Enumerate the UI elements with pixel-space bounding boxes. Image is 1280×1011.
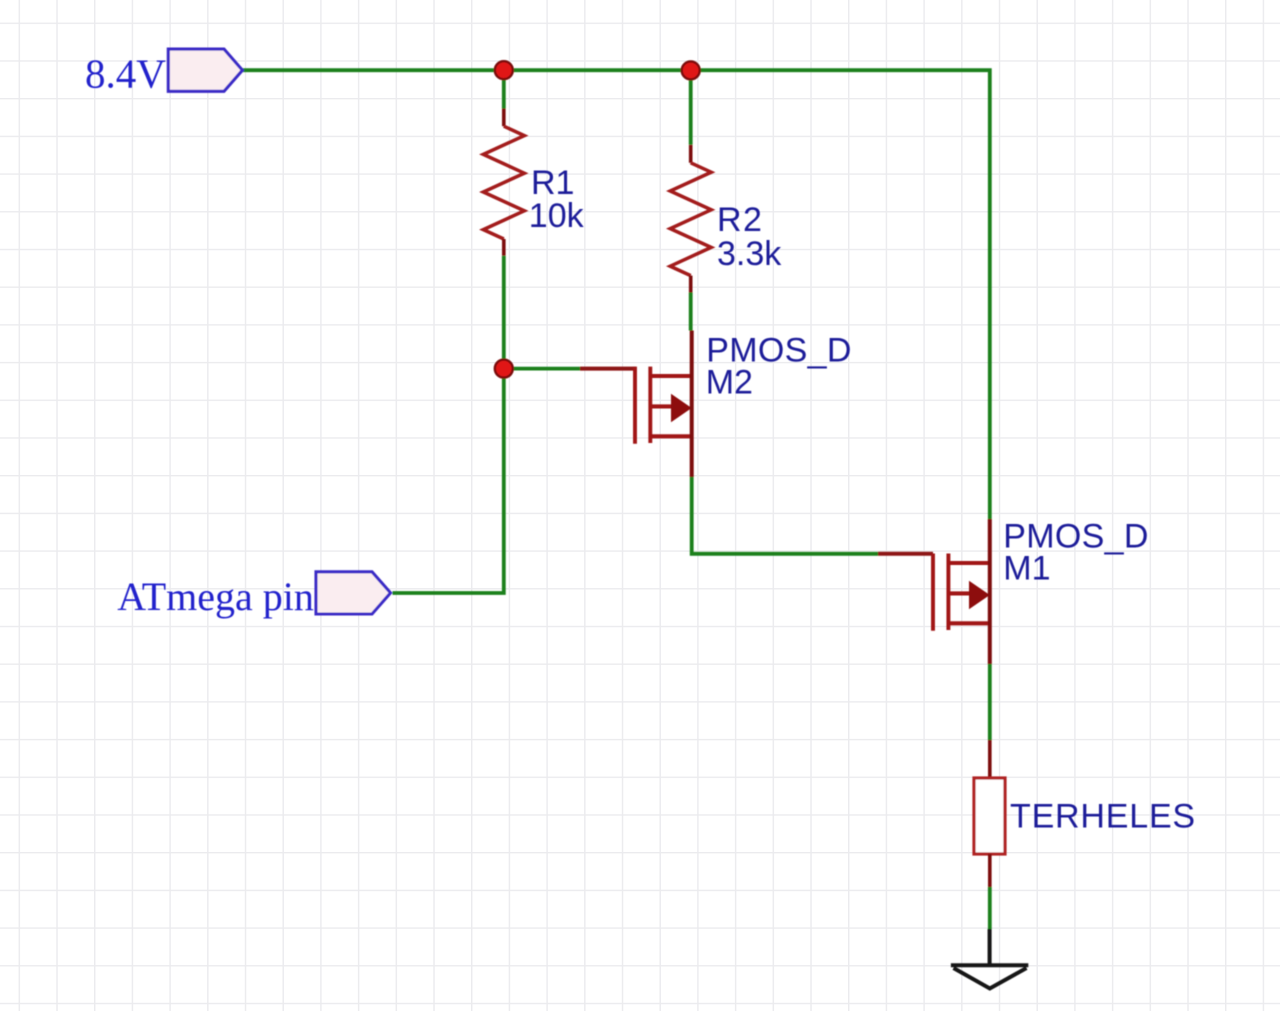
svg-text:3.3k: 3.3k bbox=[717, 235, 782, 273]
svg-text:10k: 10k bbox=[529, 197, 585, 235]
svg-text:M1: M1 bbox=[1003, 549, 1050, 587]
net flag 8.4V bbox=[85, 49, 242, 96]
junction dot at R2 top bbox=[682, 61, 700, 79]
wire M2 source down and right to M1 gate bbox=[692, 477, 878, 554]
load resistor TERHELES bbox=[974, 740, 1196, 887]
junction dot at R1 top bbox=[495, 61, 513, 79]
pmos transistor M1 bbox=[878, 518, 1149, 664]
wire R2 top stub bbox=[689, 70, 693, 145]
junction dot at M2 gate branch bbox=[495, 360, 513, 378]
resistor R2 3.3k bbox=[670, 145, 782, 293]
wire R2 bottom to M2 drain pin bbox=[689, 293, 693, 331]
svg-text:M2: M2 bbox=[706, 363, 753, 401]
wire TERHELES to ground bbox=[988, 887, 992, 929]
wire R1 bottom down to ATmega pin flag bbox=[393, 256, 504, 593]
svg-text:TERHELES: TERHELES bbox=[1010, 798, 1196, 836]
wire R1 top stub bbox=[502, 70, 506, 108]
wire top rail from 8.4V flag to M1 source drop bbox=[243, 70, 990, 519]
pmos transistor M2 bbox=[580, 331, 852, 478]
wire M2 gate stub bbox=[504, 367, 580, 371]
wire M1 drain to TERHELES bbox=[988, 664, 992, 740]
net flag ATmega pin bbox=[117, 572, 390, 619]
svg-text:ATmega pin: ATmega pin bbox=[117, 574, 314, 619]
resistor R1 10k bbox=[483, 109, 584, 256]
svg-text:8.4V: 8.4V bbox=[85, 50, 166, 96]
svg-text:R2: R2 bbox=[717, 201, 763, 239]
ground bbox=[951, 929, 1028, 989]
